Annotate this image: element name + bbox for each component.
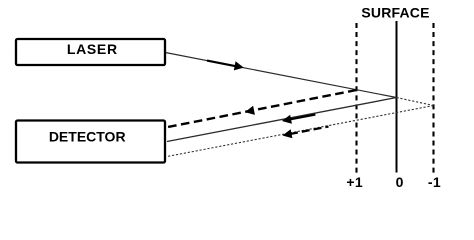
arrowhead on +1 return beam [245,106,255,115]
dashed arrow stem on -1 return beam [290,127,329,134]
incident beam arrowhead [234,61,244,70]
beam continuation surface 0 to -1 (fine dotted) [397,98,434,106]
arrow stem on 0 return beam [289,115,315,120]
return beam from 0 (solid) [167,98,397,142]
return beam from +1 (bold dashed) [168,90,357,127]
svg-text:DETECTOR: DETECTOR [49,129,126,145]
arrowhead on 0 return beam [282,115,292,124]
svg-text:+1: +1 [346,174,363,190]
svg-text:-1: -1 [428,174,441,190]
incident beam arrow stem [207,61,237,67]
surface position line 0 (solid vertical) [396,21,398,173]
svg-text:0: 0 [396,174,404,190]
arrowhead on -1 return beam [282,129,292,138]
detector box [16,121,165,163]
return beam from -1 (fine dotted) [167,106,434,157]
laser box [16,39,165,65]
surface position line +1 (dashed vertical) [355,23,357,173]
surface position line -1 (dashed vertical) [432,23,434,173]
incident beam laser to surface 0 [166,53,397,98]
svg-text:LASER: LASER [67,41,118,57]
svg-text:SURFACE: SURFACE [361,5,429,21]
